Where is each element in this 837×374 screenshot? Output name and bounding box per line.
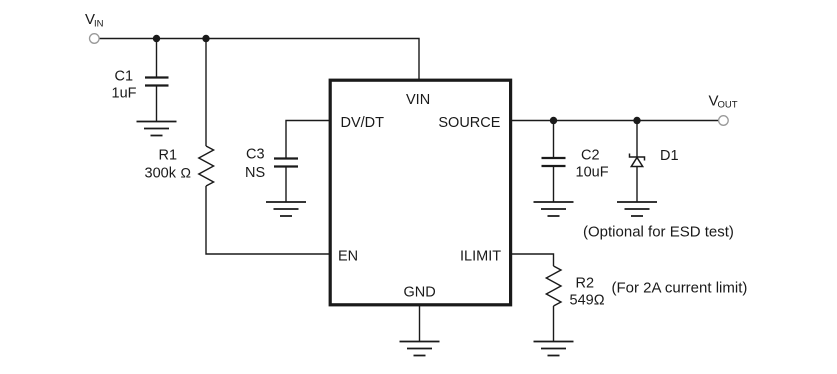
svg-text:(Optional for ESD test): (Optional for ESD test) — [583, 224, 734, 241]
svg-text:EN: EN — [338, 249, 358, 265]
svg-text:VIN: VIN — [406, 92, 430, 108]
svg-text:549Ω: 549Ω — [570, 293, 605, 309]
svg-text:(For 2A current limit): (For 2A current limit) — [612, 280, 748, 297]
svg-text:IN: IN — [94, 19, 104, 30]
svg-text:300k: 300k — [145, 166, 177, 182]
svg-text:C3: C3 — [246, 147, 265, 163]
svg-text:R1: R1 — [159, 148, 178, 164]
svg-text:R2: R2 — [576, 276, 595, 292]
svg-text:C2: C2 — [581, 148, 600, 164]
svg-text:Ω: Ω — [181, 165, 191, 181]
svg-text:SOURCE: SOURCE — [438, 115, 500, 131]
svg-text:ILIMIT: ILIMIT — [460, 249, 501, 265]
svg-text:10uF: 10uF — [576, 165, 609, 181]
svg-text:1uF: 1uF — [112, 86, 137, 102]
svg-text:OUT: OUT — [718, 100, 738, 111]
svg-text:GND: GND — [404, 285, 436, 301]
svg-text:C1: C1 — [115, 69, 134, 85]
svg-text:DV/DT: DV/DT — [341, 115, 385, 131]
svg-text:D1: D1 — [660, 148, 679, 164]
svg-text:NS: NS — [245, 165, 265, 181]
